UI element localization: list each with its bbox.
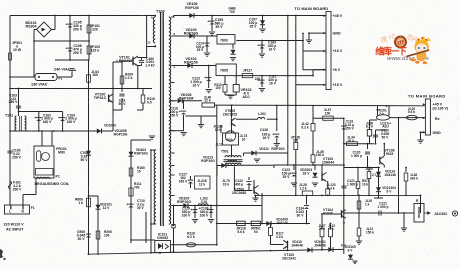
svg-text:RGP10G: RGP10G	[184, 32, 199, 36]
svg-text:+8 V: +8 V	[333, 68, 341, 72]
svg-text:130 VlAC: 130 VlAC	[31, 83, 48, 87]
svg-text:250 V: 250 V	[12, 155, 22, 159]
svg-text:16 V: 16 V	[269, 81, 277, 85]
svg-text:7803: 7803	[220, 38, 228, 42]
svg-text:220 W110 V: 220 W110 V	[4, 223, 25, 227]
svg-text:2 k: 2 k	[379, 112, 384, 116]
svg-text:10 k: 10 k	[362, 182, 368, 186]
svg-text:50 V: 50 V	[81, 158, 89, 162]
svg-text:JP117: JP117	[243, 69, 252, 73]
svg-text:GND: GND	[333, 31, 342, 35]
svg-text:120 k: 120 k	[91, 49, 100, 53]
svg-text:+: +	[58, 116, 60, 120]
svg-text:1 k: 1 k	[365, 202, 370, 206]
svg-text:9015: 9015	[386, 152, 394, 156]
svg-text:2SC1941: 2SC1941	[282, 257, 296, 261]
svg-text:330: 330	[293, 139, 299, 143]
svg-text:3.3 k: 3.3 k	[276, 235, 283, 239]
svg-text:+: +	[190, 208, 192, 212]
svg-text:CNX82: CNX82	[157, 236, 168, 240]
svg-text:TlP31C: TlP31C	[94, 96, 107, 100]
svg-text:700: 700	[134, 185, 140, 189]
svg-text:16 V: 16 V	[269, 47, 277, 51]
svg-text:1.4 kV: 1.4 kV	[145, 63, 155, 67]
svg-text:2SC2688: 2SC2688	[232, 191, 246, 195]
svg-text:C10: C10	[201, 200, 207, 204]
svg-text:+: +	[257, 44, 259, 48]
svg-text:RGP10G: RGP10G	[134, 152, 148, 156]
svg-text:RGP10G: RGP10G	[201, 159, 215, 163]
svg-text:+: +	[65, 47, 67, 51]
svg-text:22 k: 22 k	[204, 99, 211, 103]
svg-text:+: +	[179, 110, 181, 114]
svg-text:L: L	[9, 210, 11, 214]
svg-text:30 V: 30 V	[78, 237, 86, 241]
svg-text:16 V: 16 V	[193, 83, 201, 87]
svg-text:T501: T501	[221, 150, 229, 154]
svg-text:5.6 k: 5.6 k	[237, 230, 244, 234]
svg-text:RGP10G: RGP10G	[271, 147, 285, 151]
svg-text:200 V: 200 V	[73, 51, 83, 55]
svg-text:AC INPUT: AC INPUT	[6, 228, 24, 232]
svg-text:100: 100	[325, 111, 331, 115]
svg-text:7805: 7805	[220, 69, 228, 73]
svg-text:10 k: 10 k	[223, 182, 230, 186]
svg-text:P1: P1	[56, 175, 60, 179]
svg-text:100: 100	[215, 86, 220, 90]
svg-text:(lo 135 V): (lo 135 V)	[433, 106, 448, 110]
svg-text:+: +	[65, 23, 67, 27]
svg-text:+: +	[257, 79, 259, 83]
svg-text:51 k: 51 k	[348, 139, 355, 143]
svg-text:6.2 k: 6.2 k	[301, 126, 308, 130]
svg-text:RGP10G: RGP10G	[177, 200, 191, 204]
svg-text:10 W: 10 W	[13, 48, 22, 52]
svg-text:12 V: 12 V	[103, 206, 111, 210]
svg-text:T101: T101	[5, 114, 13, 118]
svg-text:JAC302: JAC302	[434, 212, 447, 216]
svg-text:DEGAUSSING COIL: DEGAUSSING COIL	[35, 182, 70, 186]
svg-text:12 k: 12 k	[199, 182, 206, 186]
svg-text:700: 700	[229, 10, 235, 14]
svg-text:11: 11	[148, 41, 151, 45]
svg-text:1.2 k: 1.2 k	[125, 76, 133, 80]
svg-text:VD111: VD111	[259, 147, 269, 151]
svg-text:18 V: 18 V	[303, 171, 311, 175]
svg-text:15A844: 15A844	[322, 161, 334, 165]
svg-text:1N4148: 1N4148	[384, 173, 396, 177]
svg-text:5.6 k: 5.6 k	[408, 110, 415, 114]
svg-text:1.2 k: 1.2 k	[299, 187, 306, 191]
svg-text:160 V: 160 V	[43, 120, 53, 124]
svg-text:1 000 p: 1 000 p	[377, 205, 388, 209]
svg-text:1 k: 1 k	[78, 201, 83, 205]
svg-text:GND: GND	[433, 131, 442, 135]
svg-text:100 V: 100 V	[182, 213, 192, 217]
svg-text:35 V: 35 V	[215, 25, 223, 29]
svg-text:RGP100: RGP100	[185, 6, 199, 10]
svg-text:160 V: 160 V	[67, 120, 77, 124]
svg-text:F1: F1	[31, 206, 35, 210]
svg-text:200 V: 200 V	[73, 28, 83, 32]
svg-text:RS304: RS304	[26, 25, 37, 29]
svg-text:150 V: 150 V	[345, 126, 354, 130]
svg-text:C126: C126	[260, 128, 268, 132]
svg-text:100: 100	[92, 73, 98, 77]
svg-text:30 V: 30 V	[297, 213, 305, 217]
svg-text:0.5: 0.5	[147, 100, 152, 104]
svg-text:L201: L201	[258, 112, 266, 116]
svg-text:20 k: 20 k	[319, 227, 325, 231]
svg-text:1N4048: 1N4048	[314, 243, 326, 247]
svg-text:TO MAIN BOARD: TO MAIN BOARD	[408, 94, 446, 99]
svg-text:25 V: 25 V	[197, 48, 205, 52]
svg-text:+: +	[126, 203, 128, 207]
svg-text:+: +	[207, 20, 209, 24]
svg-text:+16 V: +16 V	[333, 49, 343, 53]
svg-text:6.2 k: 6.2 k	[187, 235, 195, 239]
svg-text:15: 15	[137, 169, 141, 173]
svg-text:16 V: 16 V	[263, 136, 271, 140]
svg-text:TO MAIN BOARD: TO MAIN BOARD	[295, 6, 329, 11]
svg-text:JL11: JL11	[216, 143, 223, 147]
svg-text:1N4148: 1N4148	[276, 221, 288, 225]
svg-text:M90: M90	[58, 151, 65, 155]
svg-text:1N4048: 1N4048	[291, 243, 303, 247]
svg-text:190: 190	[104, 233, 110, 237]
svg-text:RGP10M: RGP10M	[179, 97, 194, 101]
svg-text:160 V: 160 V	[179, 179, 189, 183]
svg-text:250 V: 250 V	[13, 187, 23, 191]
svg-text:2SC1815: 2SC1815	[223, 113, 238, 117]
svg-text:5 k: 5 k	[254, 230, 259, 234]
svg-text:RGP150: RGP150	[184, 61, 198, 65]
svg-text:363 k: 363 k	[410, 176, 418, 180]
svg-text:ADJ: ADJ	[242, 95, 249, 99]
svg-text:50 V: 50 V	[382, 135, 390, 139]
svg-text:+: +	[34, 116, 36, 120]
svg-text:10: 10	[242, 137, 246, 141]
svg-text:+15 V: +15 V	[333, 83, 343, 87]
svg-text:3.3 k: 3.3 k	[327, 187, 334, 191]
svg-text:150 k: 150 k	[366, 230, 374, 234]
svg-text:VD1003: VD1003	[104, 124, 116, 128]
svg-text:100 V: 100 V	[200, 213, 210, 217]
svg-text:2.7 k: 2.7 k	[372, 173, 379, 177]
svg-text:+45 V: +45 V	[333, 14, 343, 18]
svg-text:400 p: 400 p	[235, 182, 243, 186]
svg-text:9194S: 9194S	[323, 211, 333, 215]
svg-text:5 k: 5 k	[329, 227, 334, 231]
svg-text:240 VlAC: 240 VlAC	[54, 68, 71, 72]
svg-text:6 V: 6 V	[387, 189, 393, 193]
svg-text:10 k: 10 k	[215, 128, 222, 132]
svg-text:+: +	[272, 133, 274, 137]
svg-text:+: +	[204, 76, 206, 80]
svg-text:35 V: 35 V	[250, 24, 258, 28]
svg-text:RGP10G: RGP10G	[114, 133, 128, 137]
svg-text:150 V: 150 V	[170, 113, 180, 117]
svg-text:220: 220	[92, 28, 98, 32]
svg-text:250 V: 250 V	[9, 100, 19, 104]
